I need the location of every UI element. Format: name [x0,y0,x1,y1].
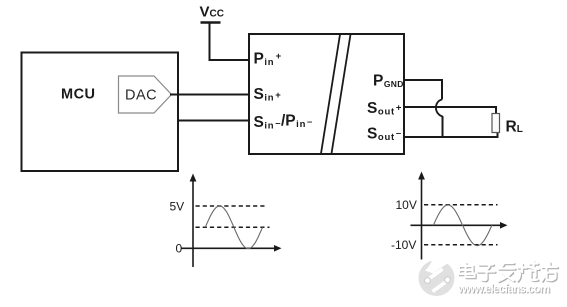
left 5V dashed line [196,205,268,207]
svg-text:www.elecfans.com: www.elecfans.com [457,284,550,296]
MCU box [22,53,179,172]
right y-axis arrow [418,172,425,180]
left mid dashed line [196,226,270,228]
wire hop over Sout+ [436,100,443,117]
isolation barrier line 1 [321,35,340,154]
wire Sout+ to load [404,107,496,114]
right x-axis [411,224,503,226]
left y-axis [192,179,194,267]
wire Vcc to Pin+ [210,24,250,61]
resistor RL [492,114,500,133]
DAC pentagon [119,76,172,113]
svg-text:-10V: -10V [391,238,416,252]
wire Sout- to load [404,133,498,138]
svg-text:0: 0 [176,242,183,256]
isolation barrier line 2 [332,35,351,154]
left x-axis [181,247,276,249]
svg-text:MCU: MCU [61,87,96,103]
left y-axis arrow [190,174,197,182]
right y-axis [421,177,423,260]
wire DAC to Sin+ [170,94,250,96]
isolation amplifier block U1 [249,34,404,154]
svg-text:5V: 5V [170,200,185,214]
wire PGND out [404,80,442,100]
right sine wave [433,205,492,246]
left waveform axes [181,179,276,267]
svg-text:DAC: DAC [125,88,157,104]
right 10V dashed line [424,204,498,206]
watermark logo [419,254,455,296]
right x-axis arrow [500,222,508,229]
Vcc bar [201,21,221,23]
watermark chinese text 电子发烧友 [459,262,558,283]
right waveform axes [411,177,503,260]
svg-text:10V: 10V [396,198,417,212]
wire PGND down to Sout- net [442,116,444,138]
left x-axis arrow [274,245,282,252]
wire MCU to Sin-/Pin- [177,120,250,122]
left sine wave [205,206,262,249]
right -10V dashed line [424,244,498,246]
